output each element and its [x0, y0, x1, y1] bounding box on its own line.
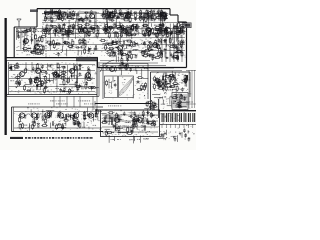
capacitor C57 [170, 31, 174, 34]
transistor VT14 [33, 45, 39, 50]
wire dark junction band [76, 57, 98, 61]
label value text [54, 34, 59, 37]
resistor R224 [60, 77, 67, 79]
transistor VT22 [108, 67, 114, 72]
capacitor C53 [179, 26, 183, 29]
wire [76, 32, 84, 34]
wire [106, 52, 109, 54]
resistor R259 [165, 85, 167, 91]
wire [126, 44, 128, 49]
wire [25, 62, 27, 70]
label value text [48, 12, 52, 15]
label value text [183, 96, 187, 99]
diode VD9 [160, 24, 164, 26]
capacitor C86 [112, 52, 116, 55]
resistor R29 [114, 9, 116, 15]
node junction [67, 33, 68, 34]
label value text [110, 15, 114, 18]
node junction [141, 122, 142, 123]
wire [175, 99, 180, 101]
wire [44, 79, 50, 81]
wire [133, 136, 135, 144]
capacitor C9 [89, 19, 92, 23]
switch SA1 flag [8, 66, 12, 70]
wire rail output block [102, 114, 158, 116]
inductor L19 [130, 27, 132, 32]
wire AF inner box [172, 93, 188, 110]
inductor L34 [151, 44, 153, 49]
wire [133, 54, 136, 56]
capacitor C12 [112, 14, 116, 17]
capacitor C113 [32, 67, 35, 71]
node junction [115, 18, 118, 21]
capacitor C4 [66, 16, 70, 19]
heavy node blob [186, 75, 189, 80]
inductor L51 [144, 125, 146, 130]
resistor R83 [78, 26, 80, 32]
wire [51, 10, 53, 15]
wire [112, 77, 114, 83]
inductor L53 [153, 105, 155, 110]
wire [175, 106, 181, 108]
resistor R76 [81, 26, 83, 32]
diode VD25 [167, 83, 171, 85]
capacitor C55 [147, 33, 150, 37]
capacitor C158 [118, 118, 121, 122]
resistor R4 [64, 11, 66, 17]
label value text [145, 138, 149, 141]
label value text [116, 31, 119, 34]
resistor R329 [135, 115, 137, 121]
resistor R112 [179, 31, 186, 33]
capacitor C6 [84, 11, 88, 14]
wire [178, 105, 187, 107]
resistor R146 [40, 35, 47, 37]
capacitor C155 [32, 121, 36, 124]
wire [29, 88, 31, 91]
resistor R129 [175, 33, 182, 35]
label value text [45, 14, 49, 17]
wire [125, 29, 127, 37]
wire [130, 112, 136, 114]
wire interconnect [52, 72, 54, 83]
resistor R11 [66, 16, 73, 18]
resistor R167 [79, 39, 81, 45]
label value text [117, 138, 121, 141]
capacitor C30 [160, 12, 163, 16]
wire [137, 26, 141, 28]
node junction [181, 96, 184, 99]
node junction [86, 84, 87, 85]
label value text [120, 34, 123, 37]
resistor R215 [36, 85, 43, 87]
wire rail in IF block [9, 70, 95, 72]
inductor L17 [86, 32, 88, 37]
wire supply rail [16, 28, 185, 30]
transistor VT16 [151, 43, 157, 48]
label value text [120, 28, 123, 31]
capacitor C51 [114, 32, 118, 35]
wire [33, 48, 38, 50]
label strip header labels2 [56, 103, 68, 106]
wire [113, 32, 117, 34]
resistor R104 [136, 24, 138, 30]
label value text [36, 88, 40, 91]
wire [118, 47, 120, 51]
label value text [57, 66, 61, 69]
wire interconnect [66, 65, 68, 75]
wire [175, 47, 180, 49]
resistor R294 [37, 113, 39, 119]
wire [122, 12, 130, 14]
wire [125, 29, 127, 32]
wire [34, 47, 36, 52]
resistor R63 [42, 29, 49, 31]
wire filter drop [161, 124, 163, 128]
node junction [103, 117, 106, 120]
node junction [93, 53, 94, 54]
resistor R327 [105, 130, 107, 136]
resistor R255 [164, 76, 171, 78]
resistor R148 [39, 36, 41, 42]
resistor R194 [172, 55, 179, 57]
inductor L10 [153, 10, 155, 15]
resistor R42 [139, 15, 141, 21]
inductor L4 [91, 11, 93, 16]
resistor R65 [51, 26, 58, 28]
resistor R15 [51, 17, 53, 23]
resistor R168 [84, 48, 86, 54]
wire rail in IF block [9, 91, 95, 93]
resistor R67 [45, 27, 47, 33]
capacitor C58 [152, 33, 156, 36]
wire interblock vertical [73, 97, 75, 108]
inductor L18 [82, 28, 84, 33]
resistor R269 [162, 78, 164, 84]
label value text [82, 126, 85, 129]
node junction [176, 104, 177, 105]
label value text [108, 130, 112, 133]
wire [175, 105, 180, 107]
resistor R128 [142, 24, 149, 26]
diode VD27 [83, 118, 87, 120]
resistor R78 [90, 27, 97, 29]
label value text [132, 13, 136, 16]
wire [120, 69, 122, 75]
label value text [36, 67, 40, 70]
capacitor C14 [109, 11, 112, 15]
diode VD20 [150, 49, 154, 51]
label value text [78, 19, 81, 22]
inductor L31 [114, 52, 116, 57]
wire IF-amp block top border [7, 59, 98, 61]
wire [69, 47, 73, 49]
node junction [114, 120, 115, 121]
transistor VT31 [136, 118, 142, 123]
label value text [119, 29, 123, 32]
wire main schematic right step h2 [178, 21, 187, 23]
wire [166, 130, 168, 136]
label value text [177, 101, 181, 104]
label value text [35, 49, 38, 52]
resistor R258 [185, 77, 187, 83]
wire [165, 14, 167, 19]
resistor R27 [101, 14, 108, 16]
resistor R263 [168, 75, 175, 77]
resistor R239 [86, 78, 93, 80]
resistor R223 [55, 75, 62, 77]
inductor L33 [178, 40, 180, 45]
resistor R118 [173, 27, 180, 29]
node junction [160, 82, 163, 85]
resistor R125 [166, 29, 168, 35]
resistor R172 [121, 53, 128, 55]
resistor R209 [13, 65, 20, 67]
capacitor C5 [76, 14, 80, 17]
wire [154, 32, 156, 37]
wire AF strip mid rail [14, 111, 102, 113]
label value text [143, 33, 146, 36]
wire [146, 19, 152, 21]
resistor R309 [142, 117, 144, 123]
transistor VT9 [104, 28, 110, 33]
label value text [26, 29, 30, 32]
wire [165, 40, 167, 47]
label value text [43, 19, 46, 22]
label value text [56, 74, 59, 77]
wire [92, 25, 97, 27]
transistor VT30 [113, 118, 119, 123]
resistor R333 [147, 101, 154, 103]
wire [173, 23, 175, 28]
node junction [113, 32, 114, 33]
wire [157, 34, 161, 36]
wire [134, 49, 139, 51]
capacitor C84 [115, 40, 118, 44]
resistor R200 [144, 50, 151, 52]
resistor R250 [136, 89, 143, 91]
wire right edge horizontal [186, 103, 196, 105]
resistor R331 [146, 101, 148, 107]
capacitor C98 [176, 45, 179, 49]
wire [28, 79, 32, 81]
label value text [129, 44, 131, 47]
capacitor C28 [164, 14, 167, 18]
capacitor C146 [179, 102, 182, 106]
label value text [180, 97, 185, 100]
node junction [132, 26, 135, 29]
wire dashed UKV-unit box right [45, 32, 47, 58]
transistor VT28 [72, 113, 79, 118]
resistor R114 [146, 29, 153, 31]
wire [115, 31, 117, 37]
wire [95, 113, 97, 117]
resistor R88 [127, 31, 129, 37]
wire [177, 135, 179, 142]
wire [64, 90, 70, 92]
capacitor C137 [162, 87, 165, 91]
capacitor C37 [59, 26, 62, 30]
resistor R74 [68, 27, 70, 33]
diode VD17 [174, 57, 178, 59]
label value text [126, 24, 130, 27]
resistor R82 [97, 25, 99, 31]
node junction [161, 26, 164, 29]
resistor R162 [53, 43, 55, 49]
wire supply rail [16, 50, 185, 52]
capacitor C163 [131, 129, 134, 133]
capacitor C108 [36, 76, 39, 80]
label value text [165, 85, 169, 88]
diode VD29 [117, 132, 121, 134]
wire [77, 50, 79, 56]
wire dashed UKV-unit box top [16, 31, 46, 33]
label value text [33, 49, 37, 52]
label value text [117, 42, 121, 45]
wire interconnect [159, 11, 161, 32]
diode VD11 [28, 47, 32, 49]
wire inner box hatch [179, 94, 181, 108]
capacitor C15 [133, 11, 137, 14]
transistor VT24 [18, 113, 25, 118]
node junction [146, 30, 149, 33]
resistor R31 [106, 8, 108, 14]
label value text [159, 97, 163, 100]
wire [158, 138, 166, 140]
wire [43, 75, 47, 77]
capacitor C97 [182, 40, 185, 44]
label value text [139, 119, 142, 122]
node junction [137, 65, 140, 68]
label value text [162, 14, 166, 17]
label value text [96, 32, 99, 35]
resistor R204 [177, 54, 179, 60]
wire supply rail [47, 37, 185, 39]
label value text [50, 25, 54, 28]
wire [132, 118, 134, 125]
label value text [48, 19, 53, 22]
label value text [125, 12, 129, 15]
label value text [113, 43, 116, 46]
label value text [148, 40, 151, 43]
wire curve line [119, 78, 133, 94]
wire [135, 66, 137, 71]
wire [170, 74, 172, 80]
inductor L20 [115, 23, 117, 28]
label schematic title text smudge [44, 11, 61, 13]
diode VD6 [169, 33, 173, 35]
label value text [145, 118, 148, 121]
transistor VT3 [108, 13, 114, 18]
wire [170, 32, 172, 36]
node junction [133, 26, 134, 27]
node junction [125, 119, 128, 122]
diode VD14 [115, 46, 119, 48]
capacitor C87 [133, 41, 136, 45]
resistor R265 [172, 83, 179, 85]
resistor R23 [123, 19, 130, 21]
label scan texture of small value annotations [9, 9, 195, 140]
resistor R243 [121, 57, 123, 63]
wire [145, 12, 151, 14]
wire [137, 30, 139, 36]
resistor R273 [182, 80, 189, 82]
label value text [143, 125, 147, 128]
node junction [97, 25, 98, 26]
diode VD21 [142, 43, 146, 45]
transistor VT13 [22, 39, 28, 44]
wire [87, 79, 90, 81]
node junction [164, 82, 167, 85]
resistor R193 [161, 50, 163, 56]
label value text [162, 96, 166, 99]
resistor R256 [154, 79, 161, 81]
wire main schematic right border [186, 22, 188, 68]
resistor R51 [143, 15, 145, 21]
resistor R304 [22, 123, 24, 129]
wire [173, 53, 175, 59]
node junction [188, 136, 191, 139]
wire main schematic left border [13, 27, 15, 58]
label value text [45, 90, 49, 93]
resistor R132 [158, 28, 160, 34]
wire interconnect [171, 29, 173, 41]
resistor R159 [53, 39, 55, 45]
wire [173, 26, 175, 33]
capacitor C177 [179, 100, 182, 104]
wire interconnect [42, 26, 44, 34]
node junction [160, 14, 161, 15]
resistor R64 [60, 29, 67, 31]
capacitor C69 [55, 42, 59, 45]
transistor VT26 [43, 113, 50, 118]
wire interconnect [180, 27, 182, 38]
wire AF strip left border inner [12, 107, 14, 132]
resistor R237 [85, 83, 87, 89]
capacitor C44 [83, 26, 87, 29]
resistor R181 [113, 51, 115, 57]
capacitor C145 [178, 104, 181, 108]
wire IF-amp block right border second [98, 62, 100, 96]
capacitor C120 [59, 88, 62, 92]
resistor R5 [70, 14, 77, 16]
node junction [49, 33, 50, 34]
resistor R109 [175, 31, 182, 33]
wire [95, 109, 97, 116]
resistor R222 [24, 85, 26, 91]
wire [171, 101, 173, 108]
resistor R272 [169, 86, 176, 88]
capacitor C132 [129, 67, 132, 71]
wire [66, 49, 68, 57]
wire interblock vertical [66, 97, 68, 108]
wire [119, 26, 124, 28]
node junction [56, 19, 57, 20]
wire arrow tick [94, 101, 96, 106]
wire [125, 26, 131, 28]
resistor R301 [96, 109, 98, 115]
label value text [130, 40, 135, 43]
capacitor C67 [30, 51, 34, 54]
resistor R189 [180, 40, 182, 46]
wire [46, 71, 48, 75]
wire interconnect [23, 30, 25, 45]
resistor R306 [41, 125, 48, 127]
resistor R116 [177, 22, 179, 28]
resistor R278 [151, 103, 158, 105]
transistor VT1 [56, 15, 62, 20]
capacitor C136 [156, 84, 160, 87]
